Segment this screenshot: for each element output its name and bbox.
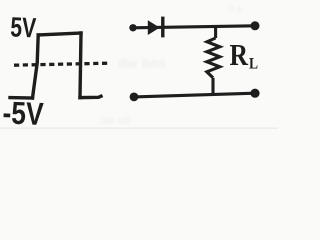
label -5V <box>2 96 44 132</box>
wire waveform falling edge <box>80 33 81 98</box>
resistor zigzag <box>207 38 220 78</box>
svg-text:R: R <box>230 39 249 73</box>
label 5V <box>10 13 37 45</box>
svg-text:5V: 5V <box>10 13 37 45</box>
wire top rail <box>133 26 255 28</box>
node bottom-left <box>130 93 139 102</box>
label RL <box>230 39 259 73</box>
wire bottom rail <box>134 93 255 97</box>
diode <box>148 17 163 38</box>
resistor RL <box>207 25 220 94</box>
svg-text:iiw oil: iiw oil <box>100 115 131 127</box>
wire waveform rising edge <box>33 35 39 98</box>
svg-text:-5V: -5V <box>2 96 44 132</box>
node bottom-right <box>250 89 259 98</box>
faint scan line at bottom <box>0 128 278 129</box>
node input top-left <box>129 24 136 31</box>
wire resistor bottom lead <box>211 78 214 95</box>
wire resistor top lead <box>214 25 217 38</box>
wire waveform low segment left <box>10 96 33 100</box>
svg-text:L: L <box>249 55 258 72</box>
ghost bleed-through text <box>100 4 243 127</box>
wire waveform low segment right <box>80 96 101 97</box>
node output top-right <box>251 21 260 30</box>
node zero-level dashed line <box>14 63 108 65</box>
wire waveform high segment <box>38 33 81 35</box>
svg-text:dw bns: dw bns <box>118 55 166 71</box>
svg-text:it a: it a <box>228 4 243 15</box>
